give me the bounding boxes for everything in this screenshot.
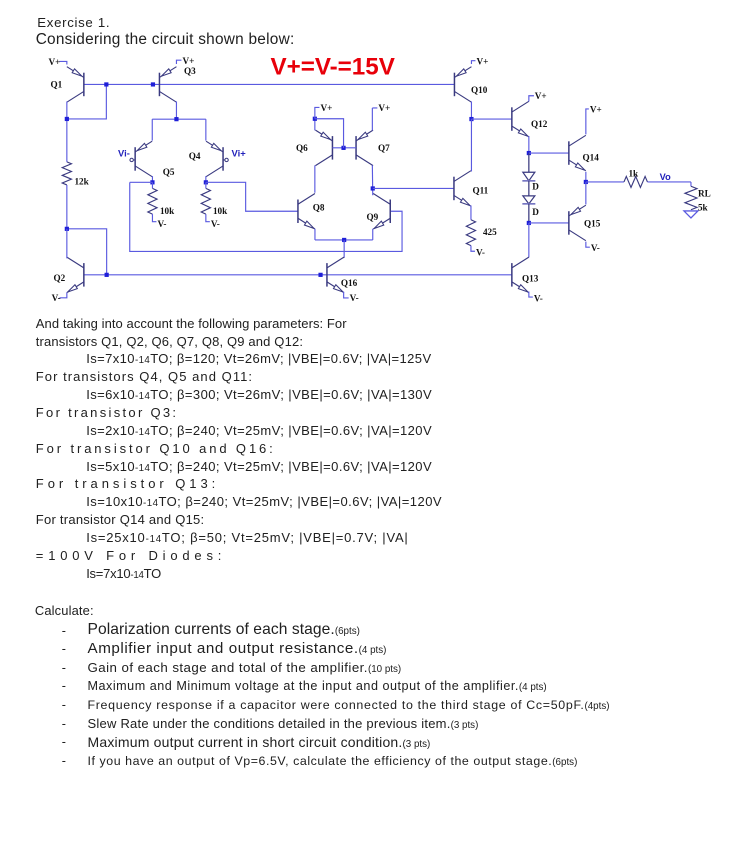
svg-text:Q15: Q15 bbox=[584, 218, 601, 228]
svg-text:Q12: Q12 bbox=[531, 119, 548, 129]
svg-text:V+: V+ bbox=[182, 56, 194, 66]
svg-text:Q2: Q2 bbox=[53, 273, 65, 283]
svg-text:V-: V- bbox=[476, 247, 485, 257]
svg-text:RL: RL bbox=[698, 189, 711, 199]
svg-text:V+: V+ bbox=[48, 57, 60, 67]
svg-text:Q13: Q13 bbox=[522, 273, 539, 283]
svg-text:V+: V+ bbox=[590, 104, 602, 114]
svg-text:Q9: Q9 bbox=[366, 212, 378, 222]
svg-text:V-: V- bbox=[211, 219, 220, 229]
svg-text:V+: V+ bbox=[476, 56, 488, 66]
svg-text:Vo: Vo bbox=[660, 172, 671, 182]
svg-text:Q14: Q14 bbox=[582, 152, 599, 162]
svg-text:V+: V+ bbox=[535, 91, 547, 101]
svg-text:1k: 1k bbox=[628, 168, 639, 178]
svg-text:Q3: Q3 bbox=[184, 66, 196, 76]
svg-text:V-: V- bbox=[534, 293, 543, 303]
svg-text:V-: V- bbox=[350, 293, 359, 303]
svg-text:Q8: Q8 bbox=[313, 202, 325, 212]
svg-text:D: D bbox=[532, 181, 539, 191]
svg-text:Q11: Q11 bbox=[472, 185, 488, 195]
svg-text:Q6: Q6 bbox=[296, 143, 308, 153]
svg-text:10k: 10k bbox=[160, 206, 175, 216]
svg-text:Q7: Q7 bbox=[378, 143, 390, 153]
svg-text:425: 425 bbox=[483, 227, 497, 237]
svg-text:10k: 10k bbox=[213, 206, 228, 216]
svg-text:V-: V- bbox=[52, 293, 61, 303]
svg-text:Q16: Q16 bbox=[341, 278, 358, 288]
svg-text:12k: 12k bbox=[74, 176, 89, 186]
svg-text:Q10: Q10 bbox=[471, 85, 488, 95]
svg-text:V+: V+ bbox=[320, 103, 332, 113]
svg-text:V+=V-=15V: V+=V-=15V bbox=[270, 54, 394, 81]
svg-text:V-: V- bbox=[591, 243, 600, 253]
svg-text:Q5: Q5 bbox=[163, 167, 175, 177]
svg-text:5k: 5k bbox=[698, 202, 709, 212]
svg-text:V+: V+ bbox=[378, 103, 390, 113]
svg-text:Vi+: Vi+ bbox=[232, 147, 247, 158]
svg-text:Vi-: Vi- bbox=[118, 147, 130, 158]
svg-text:D: D bbox=[532, 207, 539, 217]
svg-text:Q4: Q4 bbox=[189, 151, 201, 161]
svg-text:V-: V- bbox=[157, 219, 166, 229]
svg-text:Q1: Q1 bbox=[50, 79, 62, 89]
